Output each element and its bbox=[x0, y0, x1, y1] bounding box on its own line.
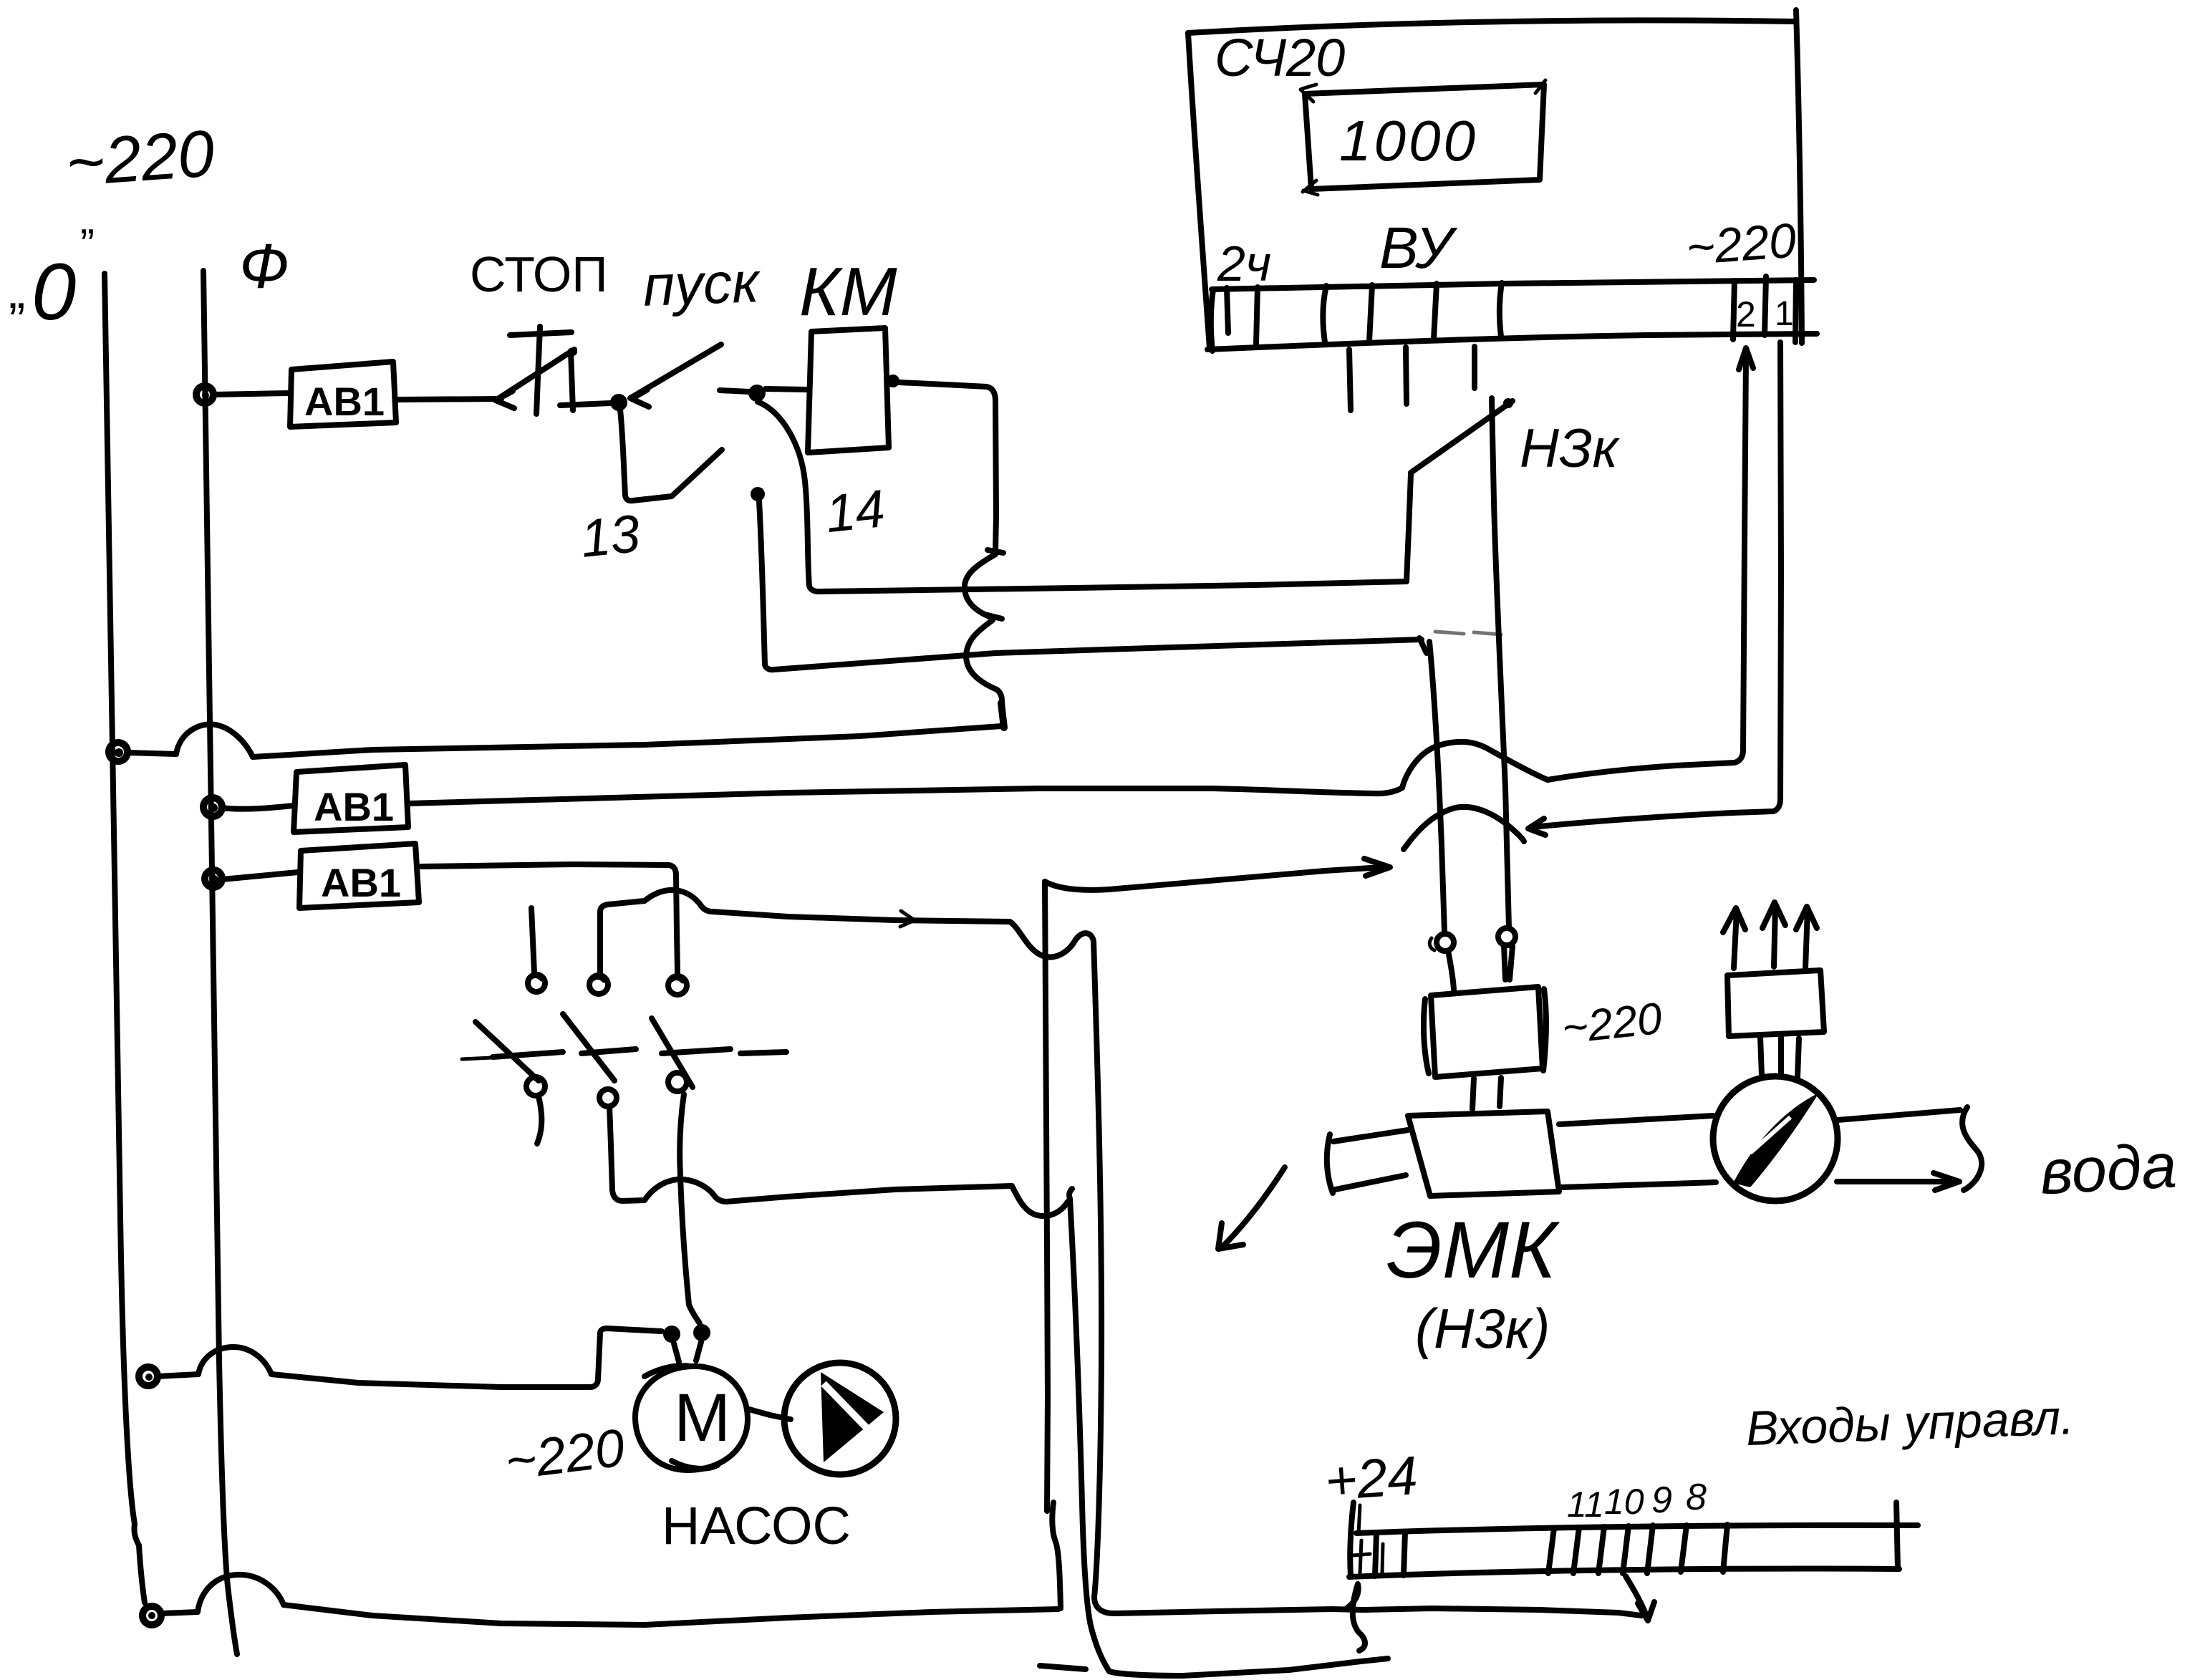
label 14 bbox=[823, 478, 888, 544]
wire EMK left terminal tail bbox=[1448, 951, 1454, 990]
svg-text:9: 9 bbox=[1651, 1479, 1672, 1521]
wire B: F bus junction to AB1-2 bbox=[203, 798, 294, 816]
wire PUSK to node 14 bbox=[720, 390, 749, 392]
svg-text:НАСОС: НАСОС bbox=[662, 1496, 851, 1555]
svg-text:~220: ~220 bbox=[64, 117, 217, 200]
wire V1 with top hook bbox=[1045, 882, 1061, 1608]
svg-text:14: 14 bbox=[823, 478, 888, 544]
wire break squiggle at +24 strip left bbox=[1346, 1584, 1365, 1651]
label pusk bbox=[642, 250, 762, 318]
terminal strip +24 left cap bbox=[1350, 1502, 1360, 1576]
node contact-14 terminal dot bbox=[751, 487, 765, 501]
label STOP bbox=[470, 246, 608, 302]
svg-text:0: 0 bbox=[32, 247, 76, 337]
wire VU stub 2 bbox=[1406, 347, 1407, 404]
contactor pole1 top circle bbox=[528, 975, 545, 992]
label ~220 on SCh20 bbox=[1684, 213, 1798, 276]
solenoid EMK coil box bbox=[1424, 987, 1546, 1077]
svg-text:ВУ: ВУ bbox=[1379, 216, 1458, 281]
wire node14 down to KM-14 corner (line1 start) bbox=[758, 402, 819, 592]
svg-text:АВ1: АВ1 bbox=[314, 784, 394, 829]
switch PUSK (NO pushbutton arm) bbox=[630, 344, 721, 407]
wire VU stub 1 bbox=[1349, 349, 1351, 410]
svg-text:КМ: КМ bbox=[799, 254, 897, 330]
svg-text:11: 11 bbox=[1567, 1485, 1604, 1525]
wire line1 KM-14 to NZk left leg bbox=[819, 581, 1407, 592]
wire V2 cup-dip over V1 and down bbox=[1010, 922, 1114, 1613]
wire motor terminal leads bbox=[674, 1342, 701, 1362]
contactor pole2 lower terminal bbox=[599, 1089, 617, 1106]
svg-text:Ф: Ф bbox=[239, 231, 289, 301]
wire KM right terminal to vertical bbox=[899, 382, 1003, 553]
contactor pole1 lower terminal bbox=[526, 1077, 545, 1144]
svg-text:10: 10 bbox=[1604, 1482, 1644, 1522]
wire EMK coil legs bbox=[1472, 1078, 1501, 1109]
wire pole2 tail to V3 (hops pole3 tail) bbox=[609, 1106, 1012, 1202]
wire F bus vertical bbox=[203, 271, 237, 1654]
node junction 14 bbox=[748, 385, 766, 402]
pipe meter to right with break bbox=[1837, 1107, 1982, 1190]
solenoid EMK left terminal circle bbox=[1429, 934, 1454, 951]
svg-text:8: 8 bbox=[1686, 1477, 1707, 1518]
valve body bbox=[1408, 1111, 1559, 1196]
svg-text:Входы управл.: Входы управл. bbox=[1745, 1390, 2075, 1456]
svg-text:ЭМК: ЭМК bbox=[1386, 1205, 1560, 1295]
contactor pole3 top circle bbox=[668, 976, 687, 995]
node KM right terminal bbox=[887, 375, 899, 387]
wire D from V1 top with arrow bbox=[1045, 859, 1390, 890]
flow meter propeller bbox=[1733, 1093, 1819, 1187]
terminal strip SCh20 left cap bbox=[1211, 289, 1213, 351]
svg-text:АВ1: АВ1 bbox=[304, 379, 385, 424]
label voda bbox=[2038, 1129, 2178, 1207]
terminal +24 left cell marks bbox=[1353, 1532, 1405, 1576]
terminal strip SCh20 bottom line bbox=[1207, 334, 1817, 349]
svg-text:13: 13 bbox=[578, 503, 643, 569]
svg-text:~220: ~220 bbox=[1684, 213, 1798, 276]
wire bottom bus from "0" to V1 bbox=[161, 1575, 1058, 1625]
wire pole3 tail down to motor bbox=[680, 1094, 700, 1323]
label ~220 at EMK bbox=[1560, 994, 1664, 1053]
breaker AB1 (top) bbox=[290, 362, 396, 427]
pump circle with triangle bbox=[784, 1363, 896, 1474]
contactor pole2 top circle bbox=[589, 975, 608, 994]
svg-text:М: М bbox=[674, 1380, 730, 1456]
wire motor bus from "0" junction (hops F bus) bbox=[158, 1328, 662, 1387]
wire AB1-1 to STOP contact bbox=[396, 391, 514, 408]
svg-text:вода: вода bbox=[2038, 1129, 2178, 1207]
svg-text:пуск: пуск bbox=[642, 250, 762, 318]
label ~220 at motor bbox=[502, 1417, 628, 1491]
contactor pole1 arm bbox=[476, 1022, 539, 1081]
wire B: AB1-2 to SCh20 terminal 2 bbox=[408, 348, 1753, 803]
svg-text:~220: ~220 bbox=[1560, 994, 1664, 1053]
solenoid EMK right terminal circle bbox=[1498, 928, 1515, 945]
svg-text:1: 1 bbox=[1775, 295, 1794, 333]
contact 13 branch (KM aux) bbox=[620, 410, 722, 501]
terminal strip input dividers bbox=[1548, 1525, 1727, 1573]
svg-text:„: „ bbox=[9, 263, 25, 319]
label VU output bbox=[1379, 216, 1458, 281]
svg-text:НЗк: НЗк bbox=[1520, 418, 1621, 479]
sensor box above meter bbox=[1727, 970, 1824, 1036]
node "0" bus label bbox=[9, 221, 95, 337]
label 11 10 9 8 bbox=[1567, 1477, 1707, 1525]
svg-text:АВ1: АВ1 bbox=[321, 860, 401, 905]
arrows pulse outputs bbox=[1723, 902, 1817, 968]
wire F junction to AB1-1 bbox=[213, 393, 289, 395]
label EMK bbox=[1386, 1205, 1560, 1295]
wire meter sensor stubs bbox=[1760, 1037, 1799, 1077]
label (NZk) bbox=[1415, 1297, 1550, 1360]
label ~220 top-left bbox=[64, 117, 217, 200]
wire V3 cup-dip over V1 then down bbox=[1012, 1186, 1109, 1671]
wire NZk left leg bbox=[1407, 474, 1411, 581]
wire stub below V2 bottom bbox=[1040, 1666, 1086, 1669]
node junction at "0" bus bottom bbox=[143, 1606, 161, 1625]
label 13 bbox=[578, 503, 643, 569]
svg-text:1000: 1000 bbox=[1339, 109, 1478, 173]
wire AB1-3 to contactor pole3 bbox=[421, 864, 677, 972]
wire KM vertical hop over line1 bbox=[965, 554, 1002, 619]
label 1000 bbox=[1339, 109, 1478, 173]
wire H-low1 bottom right bus bbox=[1114, 1608, 1641, 1616]
wire H-low2 bottom bus to strip area bbox=[1109, 1659, 1388, 1676]
node F bus label bbox=[239, 231, 289, 301]
wire KM vertical hop over line2 and join wire A bbox=[966, 620, 1004, 728]
node junction on F bus for AB1-1 bbox=[196, 386, 213, 403]
contactor pole3 lower terminal bbox=[668, 1073, 687, 1091]
annotation arrow to valve bbox=[1218, 1167, 1285, 1249]
wire C: arc-arrow over EMK pair to terminal 1 bbox=[1404, 342, 1781, 849]
svg-text:СЧ20: СЧ20 bbox=[1215, 28, 1345, 87]
breaker AB1 (bottom) bbox=[205, 844, 419, 908]
switch STOP (NC pushbutton) bbox=[496, 327, 610, 414]
flow meter circle bbox=[1713, 1076, 1838, 1201]
controller SCh20 box outline bbox=[1188, 10, 1802, 348]
svg-text:СТОП: СТОП bbox=[470, 246, 608, 302]
label Vhody upravl bbox=[1745, 1390, 2075, 1456]
wire NZk right leg down to EMK right bbox=[1492, 398, 1509, 928]
terminal strip +24 top line bbox=[1356, 1525, 1918, 1533]
contactor pole2 arm bbox=[563, 1014, 614, 1081]
label 24 output bbox=[1217, 236, 1271, 291]
svg-text:+24: +24 bbox=[1323, 1445, 1420, 1512]
wire contact-14 down and right (line2 to EMK) bbox=[759, 501, 1427, 670]
svg-text:”: ” bbox=[80, 221, 95, 269]
terminal strip +24 right cap bbox=[1896, 1502, 1898, 1569]
node junction 13 (after STOP) bbox=[610, 394, 627, 411]
terminal cell 1 bbox=[1765, 276, 1796, 342]
svg-text:2ч: 2ч bbox=[1217, 236, 1271, 291]
wire pole2 lead to V2 (hops pole3 lead) bbox=[608, 890, 1010, 927]
wire faint remnant NZk to EMK left bbox=[1435, 632, 1501, 634]
node motor left terminal bbox=[663, 1326, 680, 1343]
wire pole2 top lead bbox=[600, 904, 608, 975]
display window 1000 box bbox=[1301, 80, 1545, 195]
wire H-low1 end arrow into strip bbox=[1626, 1576, 1654, 1621]
wire pole1 top lead bbox=[531, 908, 534, 972]
svg-text:2: 2 bbox=[1736, 294, 1756, 334]
contactor linkage dashes bbox=[462, 1049, 786, 1059]
wire "0" bus vertical bbox=[105, 274, 145, 1603]
wire EMK right terminal tails bbox=[1504, 945, 1512, 980]
wire motor to pump link bbox=[749, 1409, 791, 1419]
node junction on "0" bus for wire A bbox=[109, 743, 127, 761]
node motor right terminal bbox=[693, 1324, 710, 1341]
contactor coil KM box bbox=[808, 328, 889, 453]
terminal strip dividers bbox=[1227, 283, 1502, 344]
terminal strip SCh20 top line bbox=[1212, 280, 1814, 289]
wire EMK left vertical bbox=[1429, 642, 1444, 932]
label SCh20 bbox=[1215, 28, 1345, 87]
svg-text:(Н3к): (Н3к) bbox=[1415, 1297, 1550, 1360]
pipe valve to meter bbox=[1559, 1116, 1716, 1187]
wire node14 to KM coil bbox=[766, 389, 808, 390]
contactor pole3 arm bbox=[652, 1018, 693, 1087]
label +24 bbox=[1323, 1445, 1420, 1512]
label NASOS bbox=[662, 1496, 851, 1555]
pipe left stub bbox=[1327, 1130, 1408, 1193]
wire A from "0" bus to junction with KM vertical bbox=[127, 724, 1001, 757]
motor M circle bbox=[635, 1366, 748, 1470]
label NZk bbox=[1520, 418, 1621, 479]
terminal cell 2 bbox=[1733, 281, 1756, 339]
label KM bbox=[799, 254, 897, 330]
wire VU stub 3 bbox=[1472, 347, 1477, 388]
node junction on "0" bus for motor bus bbox=[139, 1367, 158, 1386]
terminal strip +24 bottom line bbox=[1349, 1568, 1899, 1577]
switch NZk arm bbox=[1411, 398, 1513, 473]
breaker AB1 (middle) bbox=[294, 765, 408, 832]
